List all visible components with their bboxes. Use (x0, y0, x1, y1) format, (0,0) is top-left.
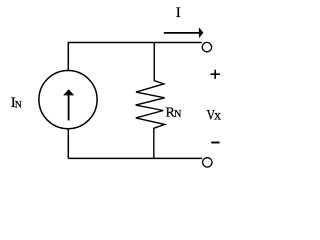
svg-text:I: I (176, 5, 181, 21)
current source arrow (upward) (68, 94, 70, 121)
terminal circle - (bottom right) (203, 158, 212, 167)
wire: bottom rail to - terminal (68, 157, 202, 159)
terminal circle + (top right) (202, 42, 211, 51)
wire: source bottom to bottom rail (67, 129, 69, 159)
wire: top rail from source top corner to + terminal (68, 43, 202, 71)
svg-text:N: N (174, 109, 181, 120)
svg-text:N: N (15, 100, 22, 110)
svg-text:x: x (214, 109, 221, 124)
current arrow I (top) (164, 32, 200, 34)
label - (211, 142, 219, 144)
resistor RN (zigzag with leads) (136, 43, 165, 159)
label + (211, 70, 220, 79)
label Vx (207, 106, 216, 123)
current source IN (circle) (39, 71, 97, 129)
